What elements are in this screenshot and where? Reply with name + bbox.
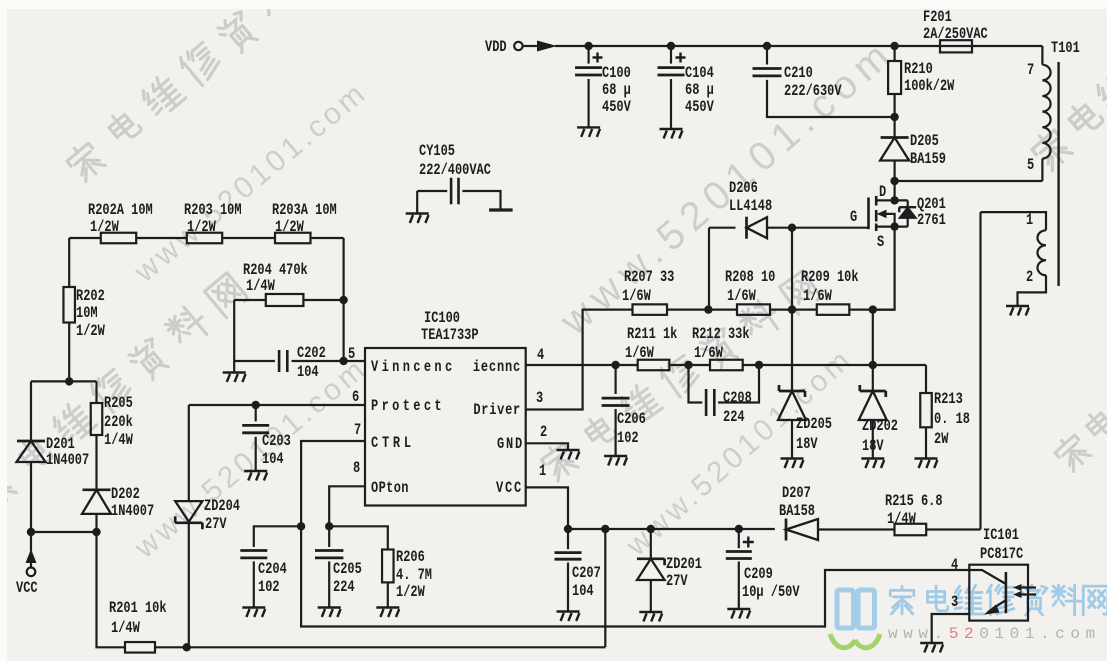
svg-text:D206: D206 bbox=[729, 180, 758, 198]
op-amp IC100 TEA1733P body bbox=[365, 348, 526, 506]
wire Protect pin6 bbox=[189, 404, 365, 406]
transistor Q201 drain stub bbox=[876, 199, 908, 201]
svg-text:450V: 450V bbox=[602, 99, 631, 117]
svg-text:220k: 220k bbox=[104, 414, 133, 432]
capacitor C104 bbox=[670, 46, 672, 64]
resistor R203 bbox=[187, 233, 222, 244]
wire R207 to R208 bbox=[667, 309, 737, 311]
light arrows into IC101 bbox=[1019, 588, 1036, 595]
wire VCC node down to bottom row bbox=[97, 532, 126, 647]
svg-text:C206: C206 bbox=[617, 411, 646, 429]
ground R213 bbox=[915, 459, 938, 469]
ground T101 aux winding bbox=[1006, 306, 1029, 316]
resistor R208 bbox=[737, 304, 770, 315]
svg-text:R201 10k: R201 10k bbox=[109, 600, 167, 618]
zener diode ZD202 bbox=[872, 365, 874, 391]
junction dot rail/bottom link bbox=[601, 525, 609, 533]
capacitor C202 bbox=[234, 360, 275, 362]
wire rail to bottom row link bbox=[604, 529, 606, 647]
resistor R203A bbox=[275, 233, 311, 244]
svg-text:OPton: OPton bbox=[371, 480, 409, 498]
svg-text:ZD202: ZD202 bbox=[862, 418, 898, 436]
diode D201 bbox=[30, 381, 32, 441]
wire gate node down to row1 bbox=[791, 228, 793, 310]
wire pin5 to divider bbox=[344, 360, 365, 362]
zener diode ZD201 bbox=[650, 529, 652, 559]
transformer T101 primary winding pins 7-5 bbox=[1041, 46, 1043, 65]
svg-text:C100: C100 bbox=[602, 65, 631, 83]
diode D205 bbox=[881, 136, 909, 139]
svg-text:R208 10: R208 10 bbox=[725, 269, 775, 287]
resistor R209 bbox=[817, 304, 850, 315]
op-amp IC101 PC817C body bbox=[969, 565, 1028, 621]
ground ZD205 bbox=[781, 459, 804, 469]
wire aux winding to R215 bbox=[979, 212, 981, 529]
wire R204 left to C202 ground node bbox=[233, 300, 235, 372]
resistor R202A bbox=[101, 233, 136, 244]
ground IC100 GND pin bbox=[557, 450, 580, 460]
transformer T101 core bbox=[1057, 62, 1059, 286]
svg-text:450V: 450V bbox=[685, 99, 714, 117]
svg-text:68 µ: 68 µ bbox=[685, 82, 714, 100]
svg-text:1N4007: 1N4007 bbox=[46, 452, 89, 470]
svg-text:www.520101.com: www.520101.com bbox=[128, 351, 374, 565]
transistor Q201 channel dashes bbox=[875, 196, 878, 231]
wire drain node to transformer pin 5 bbox=[895, 180, 1043, 182]
svg-text:222/400VAC: 222/400VAC bbox=[419, 162, 491, 180]
svg-text:C207: C207 bbox=[572, 565, 601, 583]
svg-text:4: 4 bbox=[951, 557, 959, 575]
wire R209 to source node bbox=[849, 309, 894, 311]
svg-text:104: 104 bbox=[572, 583, 594, 601]
ground C100 bbox=[577, 127, 600, 136]
ground C209 bbox=[727, 609, 750, 619]
zener diode ZD204 bbox=[188, 405, 190, 501]
svg-text:1/6W: 1/6W bbox=[803, 288, 832, 306]
svg-text:ZD204: ZD204 bbox=[204, 498, 240, 516]
wire R208 to R209 bbox=[770, 309, 817, 311]
svg-text:C204: C204 bbox=[258, 561, 287, 579]
junction dot pin5/C202 bbox=[339, 357, 347, 365]
resistor R211 bbox=[638, 360, 670, 371]
resistor R204 bbox=[234, 299, 266, 301]
svg-text:iecnnc: iecnnc bbox=[473, 359, 521, 377]
svg-text:BA158: BA158 bbox=[779, 503, 815, 521]
svg-text:3: 3 bbox=[536, 390, 543, 408]
svg-text:1/4W: 1/4W bbox=[111, 620, 140, 638]
svg-text:1/4W: 1/4W bbox=[246, 278, 275, 296]
svg-text:PC817C: PC817C bbox=[980, 546, 1024, 564]
wire D207 to R215 bbox=[818, 528, 895, 530]
svg-text:7: 7 bbox=[1027, 62, 1034, 80]
wire R215 to aux winding bbox=[926, 528, 980, 530]
diode D206 bbox=[709, 227, 736, 229]
wire VDD rail bbox=[555, 45, 1042, 47]
ground CY105 right bar bbox=[489, 208, 512, 211]
svg-text:ZD201: ZD201 bbox=[666, 556, 702, 574]
svg-text:222/630V: 222/630V bbox=[784, 83, 842, 101]
junction dot VDD/R210 bbox=[890, 42, 898, 50]
svg-text:4: 4 bbox=[537, 347, 545, 365]
wire GND pin2 bbox=[526, 443, 568, 450]
junction dot row2/source branch bbox=[869, 361, 877, 369]
svg-text:1/2W: 1/2W bbox=[187, 219, 216, 237]
svg-text:1/2W: 1/2W bbox=[396, 584, 425, 602]
zener diode ZD205 bbox=[791, 310, 793, 391]
junction dot drain stub bbox=[890, 196, 898, 204]
svg-text:C205: C205 bbox=[333, 561, 362, 579]
wire IC pin4 to row2 bbox=[526, 364, 638, 366]
svg-text:CY105: CY105 bbox=[419, 143, 455, 161]
svg-text:R202A 10M: R202A 10M bbox=[88, 202, 153, 220]
svg-text:CTRL: CTRL bbox=[371, 435, 415, 453]
svg-text:R206: R206 bbox=[396, 549, 425, 567]
wire source node down to row2 bbox=[872, 310, 874, 365]
svg-text:0. 18: 0. 18 bbox=[934, 411, 970, 429]
svg-text:D: D bbox=[879, 184, 886, 202]
resistor R212 bbox=[710, 360, 743, 371]
resistor R215 bbox=[895, 524, 927, 536]
wire OPton to R206 bbox=[329, 526, 388, 549]
svg-text:1/6W: 1/6W bbox=[694, 345, 723, 363]
ground C204 bbox=[242, 608, 265, 618]
junction dot rail/C209 bbox=[735, 525, 743, 533]
svg-text:R202: R202 bbox=[76, 288, 105, 306]
wire R212 to sense node bbox=[743, 365, 926, 393]
junction dot R204 right bbox=[339, 296, 347, 304]
wire VCC pin1 to rail bbox=[526, 487, 568, 529]
resistor R210 bbox=[893, 46, 895, 61]
svg-text:224: 224 bbox=[723, 409, 745, 427]
junction dot row2/C208 left bbox=[684, 361, 692, 369]
ground C104 bbox=[660, 129, 683, 139]
svg-text:1: 1 bbox=[539, 463, 546, 481]
junction dot rail/C207 bbox=[564, 525, 572, 533]
svg-text:T101: T101 bbox=[1051, 40, 1080, 58]
svg-text:3: 3 bbox=[951, 594, 958, 612]
svg-text:IC101: IC101 bbox=[983, 527, 1019, 545]
svg-text:G: G bbox=[850, 209, 857, 227]
svg-text:R203A 10M: R203A 10M bbox=[272, 202, 337, 220]
capacitor C100 bbox=[587, 46, 589, 64]
junction dot CTRL/C204 bbox=[297, 522, 305, 530]
svg-text:2: 2 bbox=[1026, 269, 1033, 287]
diode D207 bbox=[785, 519, 788, 541]
wire Driver pin to row1 bbox=[526, 310, 633, 410]
junction dot row2/C206 bbox=[611, 361, 619, 369]
svg-text:2761: 2761 bbox=[917, 212, 946, 230]
ground C203 bbox=[244, 471, 267, 481]
svg-text:1/6W: 1/6W bbox=[727, 288, 756, 306]
capacitor C204 bbox=[254, 526, 301, 547]
wire R211 to R212 bbox=[669, 364, 710, 366]
junction dot row1/D206 bbox=[704, 305, 712, 313]
svg-text:4. 7M: 4. 7M bbox=[396, 567, 432, 585]
node VCC terminal bbox=[30, 532, 32, 551]
svg-text:10µ /50V: 10µ /50V bbox=[742, 584, 800, 602]
svg-text:LL4148: LL4148 bbox=[729, 198, 772, 216]
wire C210 bottom to R210 column bbox=[767, 80, 895, 117]
svg-text:BA159: BA159 bbox=[910, 151, 946, 169]
wire D206 cathode down to row1 bbox=[708, 228, 710, 310]
wire divider column bbox=[343, 238, 345, 361]
svg-text:Driver: Driver bbox=[473, 402, 521, 420]
capacitor C208 bbox=[689, 365, 703, 403]
svg-text:2: 2 bbox=[540, 424, 547, 442]
svg-text:C209: C209 bbox=[744, 566, 773, 584]
svg-text:27V: 27V bbox=[205, 516, 227, 534]
junction dot rail/ZD201 bbox=[647, 525, 655, 533]
capacitor C207 bbox=[567, 529, 569, 549]
wire OPton pin8 bbox=[329, 486, 365, 526]
diode D202 bbox=[95, 435, 97, 490]
junction dot VDD/C104 bbox=[667, 42, 675, 50]
svg-text:Protect: Protect bbox=[371, 398, 445, 416]
junction dot VDD/C210 bbox=[763, 42, 771, 50]
capacitor C203 bbox=[255, 405, 257, 421]
svg-text:1N4007: 1N4007 bbox=[111, 503, 154, 521]
capacitor C209 bbox=[738, 529, 740, 548]
transistor Q201 source stub bbox=[876, 226, 908, 228]
ground C207 bbox=[557, 612, 580, 622]
divider row wire bbox=[69, 237, 343, 239]
junction dot gate node bbox=[788, 224, 796, 232]
body diode of Q201 bbox=[907, 200, 909, 207]
svg-text:68 µ: 68 µ bbox=[602, 82, 631, 100]
ground C206 bbox=[604, 456, 627, 466]
junction dot VDD/C100 bbox=[584, 42, 592, 50]
node junction R202/R205/D201 bbox=[65, 377, 73, 385]
svg-text:2W: 2W bbox=[934, 431, 949, 449]
svg-text:www.520101.com: www.520101.com bbox=[128, 75, 374, 289]
junction dot VCC-in/D201 bbox=[27, 528, 35, 536]
junction dot row1/gate-zener bbox=[788, 305, 796, 313]
svg-text:ZD205: ZD205 bbox=[796, 416, 832, 434]
svg-text:1/6W: 1/6W bbox=[622, 288, 651, 306]
capacitor C210 bbox=[766, 46, 768, 65]
svg-text:R207 33: R207 33 bbox=[624, 269, 674, 287]
transistor Q201 gate bar bbox=[867, 198, 870, 230]
svg-text:1/4W: 1/4W bbox=[887, 511, 916, 529]
svg-text:100k/2W: 100k/2W bbox=[904, 78, 955, 96]
wire VDD input arrow bbox=[523, 45, 537, 47]
svg-text:VCC: VCC bbox=[496, 480, 523, 498]
svg-text:R203 10M: R203 10M bbox=[184, 202, 242, 220]
svg-text:R212 33k: R212 33k bbox=[692, 326, 750, 344]
node VDD terminal bbox=[514, 42, 522, 50]
ground R206 bbox=[376, 608, 399, 618]
svg-text:104: 104 bbox=[297, 364, 319, 382]
capacitor CY105 bbox=[417, 190, 447, 192]
svg-text:VDD: VDD bbox=[485, 39, 507, 57]
ground C205 bbox=[318, 608, 341, 618]
svg-text:224: 224 bbox=[333, 579, 355, 597]
wire VCC rail bbox=[568, 528, 775, 530]
wire node381 horizontal bbox=[31, 380, 97, 382]
wire bottom row bbox=[155, 646, 605, 648]
junction dot VCC-in/D202 bbox=[92, 528, 100, 536]
svg-text:18V: 18V bbox=[796, 436, 818, 454]
resistor R205 bbox=[95, 381, 97, 403]
svg-text:5: 5 bbox=[1027, 157, 1034, 175]
resistor R201 bbox=[125, 642, 155, 653]
svg-text:1/4W: 1/4W bbox=[104, 432, 133, 450]
junction dot row2/C208 right bbox=[755, 361, 763, 369]
junction dot OPton node bbox=[325, 522, 333, 530]
resistor R206 bbox=[382, 550, 394, 583]
resistor R213 bbox=[920, 393, 932, 427]
svg-text:1/6W: 1/6W bbox=[625, 345, 654, 363]
svg-text:TEA1733P: TEA1733P bbox=[421, 327, 479, 345]
svg-text:R215 6.8: R215 6.8 bbox=[885, 493, 943, 511]
svg-text:1/2W: 1/2W bbox=[90, 219, 119, 237]
svg-text:F201: F201 bbox=[923, 9, 952, 27]
svg-text:C104: C104 bbox=[685, 65, 714, 83]
transistor Q201 body arrow bbox=[883, 214, 895, 227]
junction dot R210/C210 bbox=[890, 113, 898, 121]
svg-text:www.520101.com: www.520101.com bbox=[888, 625, 1101, 643]
ground IC101 pin3 bbox=[920, 643, 943, 653]
svg-text:102: 102 bbox=[258, 579, 280, 597]
svg-text:R211 1k: R211 1k bbox=[627, 326, 678, 344]
svg-text:2A/250VAC: 2A/250VAC bbox=[923, 26, 988, 44]
junction dot drain node / pin5 wire bbox=[890, 177, 898, 185]
svg-text:S: S bbox=[877, 234, 885, 252]
svg-text:8: 8 bbox=[353, 460, 360, 478]
fuse F201 bbox=[940, 40, 972, 52]
wire source to row1 bbox=[873, 227, 895, 310]
wire VCC-in node bbox=[31, 531, 97, 533]
svg-text:18V: 18V bbox=[862, 438, 884, 456]
svg-text:VCC: VCC bbox=[16, 580, 38, 598]
svg-text:C210: C210 bbox=[784, 65, 813, 83]
junction dot source sense node bbox=[869, 305, 877, 313]
svg-text:1/2W: 1/2W bbox=[76, 323, 105, 341]
svg-text:C208: C208 bbox=[723, 390, 752, 408]
resistor R202 bbox=[68, 238, 70, 287]
svg-text:R213: R213 bbox=[934, 391, 963, 409]
svg-text:R210: R210 bbox=[904, 61, 933, 79]
svg-text:R205: R205 bbox=[104, 395, 133, 413]
resistor R207 bbox=[633, 304, 668, 315]
svg-text:Vinncenc: Vinncenc bbox=[371, 359, 456, 377]
wire IC101 pin3 to ground bbox=[932, 614, 970, 643]
svg-text:R209 10k: R209 10k bbox=[801, 269, 859, 287]
svg-text:GND: GND bbox=[497, 436, 524, 454]
transistor inside IC101 bbox=[969, 570, 1006, 584]
ground CY105 left bbox=[406, 214, 429, 224]
junction dot Protect/C203 bbox=[252, 401, 260, 409]
ground C202 bbox=[223, 373, 246, 383]
svg-text:D202: D202 bbox=[111, 486, 140, 504]
svg-text:102: 102 bbox=[617, 430, 639, 448]
svg-text:IC100: IC100 bbox=[424, 310, 460, 328]
capacitor C206 bbox=[614, 365, 616, 394]
svg-text:1/2W: 1/2W bbox=[275, 219, 304, 237]
svg-text:104: 104 bbox=[262, 451, 284, 469]
svg-text:C202: C202 bbox=[297, 345, 326, 363]
capacitor C205 bbox=[328, 526, 330, 547]
junction dot bottom row/ZD204 bbox=[183, 643, 191, 651]
svg-text:27V: 27V bbox=[666, 573, 688, 591]
transformer T101 aux winding pins 1-2 bbox=[981, 212, 1047, 230]
svg-text:7: 7 bbox=[354, 422, 361, 440]
ground ZD202 bbox=[861, 459, 884, 469]
svg-text:C203: C203 bbox=[262, 433, 291, 451]
svg-text:10M: 10M bbox=[76, 305, 98, 323]
svg-text:D205: D205 bbox=[910, 133, 939, 151]
wire CTRL pin7 to opto bbox=[301, 441, 969, 627]
svg-text:D207: D207 bbox=[782, 485, 811, 503]
junction dot source stub bbox=[890, 222, 898, 230]
wire D206 anode to gate bbox=[767, 227, 869, 229]
svg-text:1: 1 bbox=[1026, 212, 1033, 230]
ground ZD201 bbox=[639, 612, 662, 622]
